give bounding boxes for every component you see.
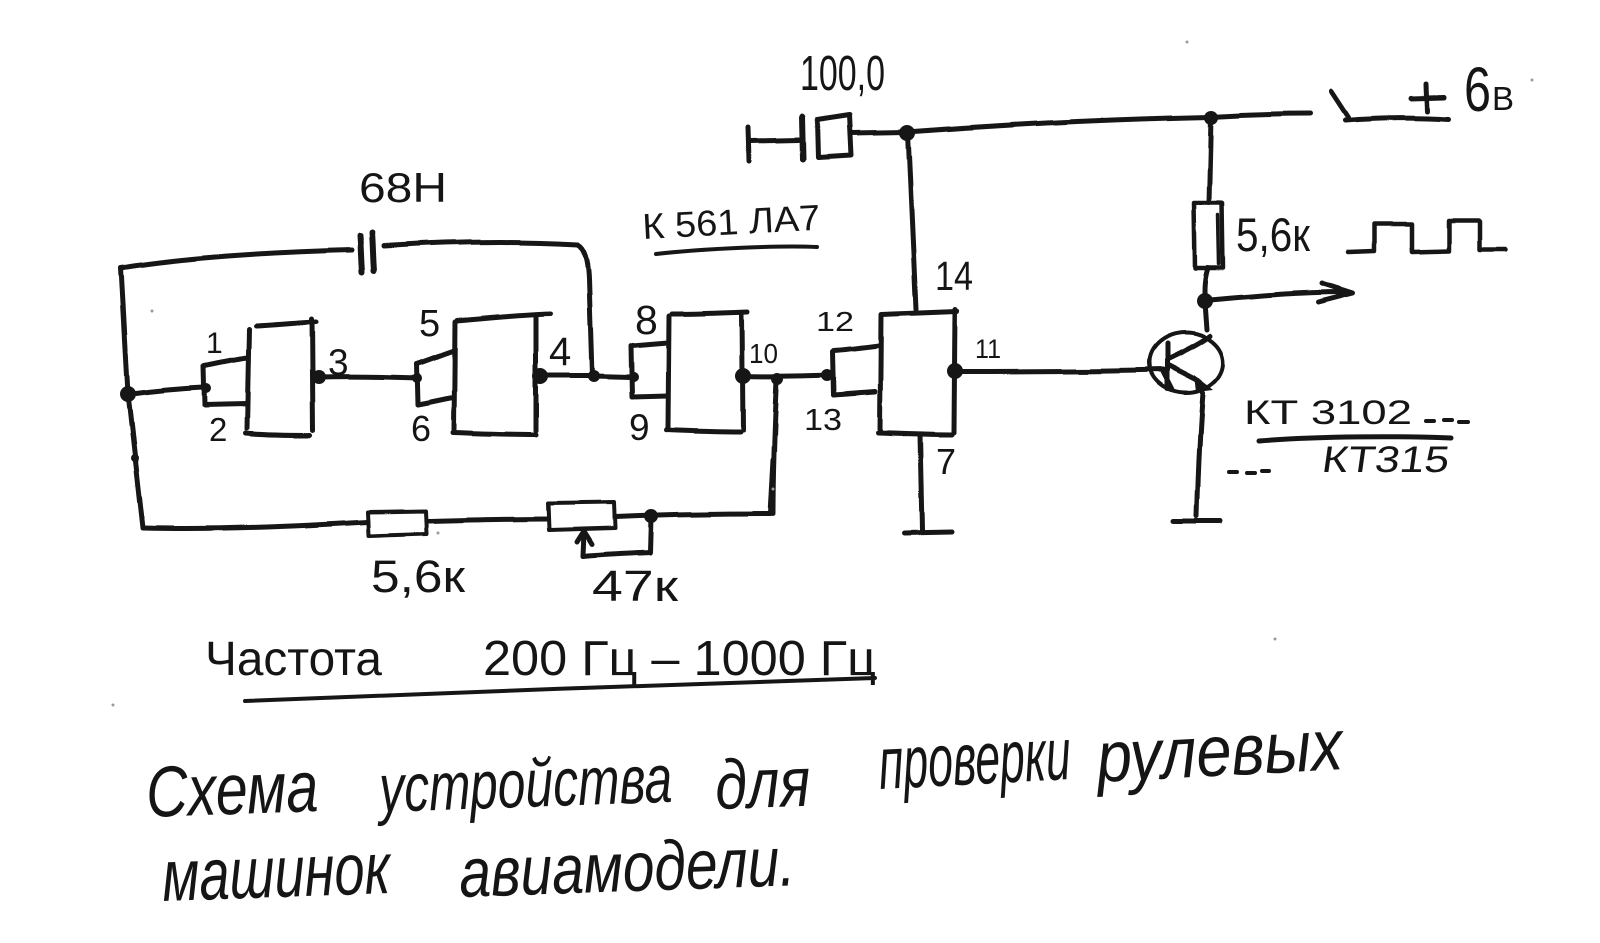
svg-text:5: 5 xyxy=(419,303,440,345)
svg-text:4: 4 xyxy=(549,330,571,374)
svg-text:3: 3 xyxy=(328,342,349,383)
svg-text:11: 11 xyxy=(975,334,1001,364)
svg-text:рулевых: рулевых xyxy=(1093,705,1347,798)
svg-text:Схема: Схема xyxy=(145,747,320,833)
svg-text:В: В xyxy=(1492,80,1514,117)
svg-text:5,6к: 5,6к xyxy=(1236,208,1310,261)
svg-text:14: 14 xyxy=(935,253,973,299)
svg-text:машинок: машинок xyxy=(161,828,394,917)
svg-text:КТ 3102: КТ 3102 xyxy=(1244,394,1412,432)
svg-text:проверки: проверки xyxy=(876,712,1072,805)
svg-text:для: для xyxy=(714,743,812,824)
svg-text:10: 10 xyxy=(749,338,778,369)
svg-text:6: 6 xyxy=(1464,55,1491,125)
svg-text:12: 12 xyxy=(816,306,854,337)
svg-text:68Н: 68Н xyxy=(359,164,447,211)
svg-text:7: 7 xyxy=(936,441,956,482)
svg-text:авиамодели.: авиамодели. xyxy=(458,822,797,912)
svg-text:47к: 47к xyxy=(592,562,679,611)
svg-text:5,6к: 5,6к xyxy=(371,551,465,602)
svg-text:устройства: устройства xyxy=(375,741,673,827)
svg-text:6: 6 xyxy=(411,408,431,449)
svg-text:100,0: 100,0 xyxy=(800,47,885,101)
svg-text:13: 13 xyxy=(804,402,842,437)
svg-text:Частота: Частота xyxy=(205,633,382,686)
svg-text:200 Гц – 1000 Гц: 200 Гц – 1000 Гц xyxy=(483,632,876,686)
svg-text:КТ315: КТ315 xyxy=(1320,438,1453,480)
svg-text:8: 8 xyxy=(635,297,658,343)
svg-text:1: 1 xyxy=(206,327,223,360)
svg-text:2: 2 xyxy=(209,411,227,448)
svg-text:9: 9 xyxy=(629,407,650,448)
